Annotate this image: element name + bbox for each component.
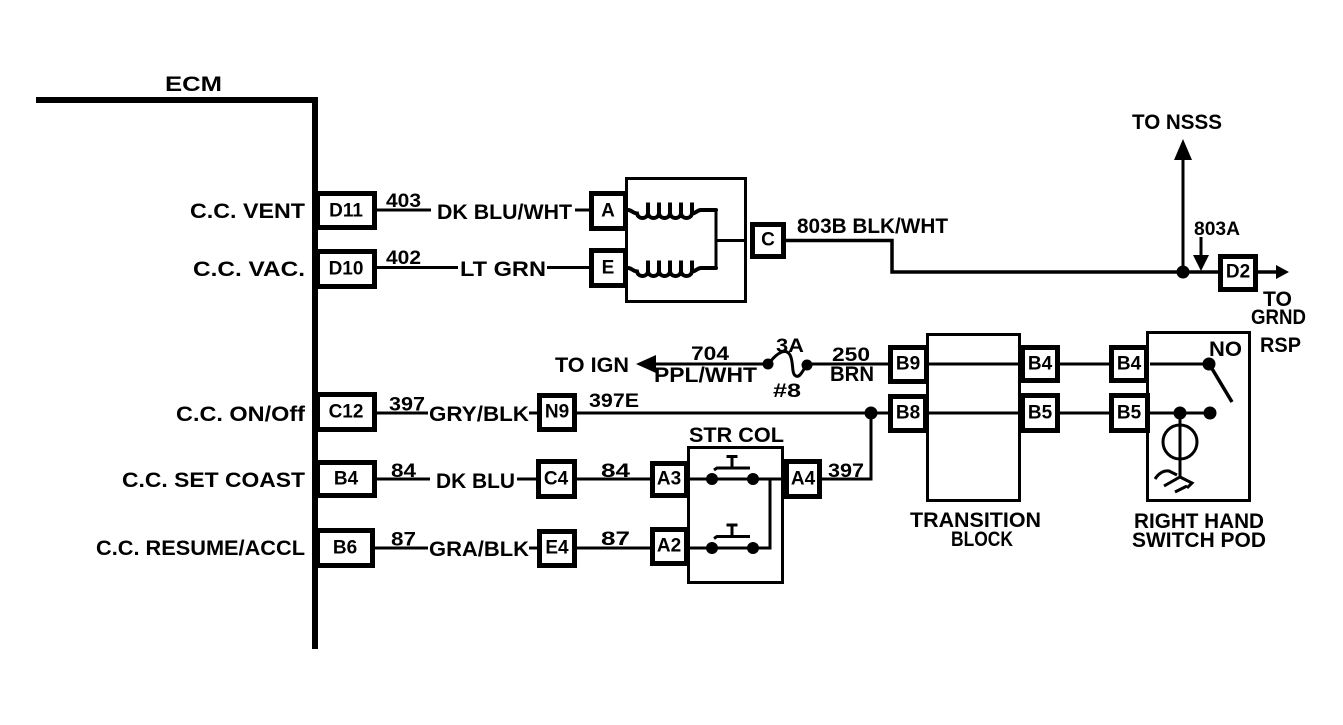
svg-text:ECM: ECM: [165, 73, 222, 96]
wire B4 block to B4 pod: [1060, 363, 1111, 366]
pod B5 wire: [1150, 412, 1210, 415]
svg-text:84: 84: [601, 461, 631, 482]
NO switch wire: [1150, 363, 1209, 366]
svg-text:BRN: BRN: [830, 363, 874, 386]
arrow to grnd rsp: [1258, 270, 1280, 274]
wire B5 block to B5 pod: [1060, 412, 1111, 415]
connector A2: [653, 530, 687, 564]
svg-text:DK BLU: DK BLU: [436, 470, 515, 493]
connector C: [753, 225, 784, 257]
coil join wire: [716, 210, 747, 268]
wire 803B from C to D2: [785, 241, 1218, 273]
svg-text:A3: A3: [657, 469, 681, 490]
svg-text:GRND: GRND: [1251, 306, 1306, 329]
vac solenoid coil L2: [628, 261, 716, 277]
svg-text:B8: B8: [896, 403, 920, 424]
wire 87 from B6: [375, 547, 428, 550]
svg-text:C: C: [761, 230, 775, 251]
svg-text:D2: D2: [1226, 262, 1250, 283]
svg-text:B9: B9: [896, 354, 920, 375]
connector pin B6: [318, 531, 373, 566]
wire B8 to B5 through block: [927, 412, 1022, 415]
svg-text:A4: A4: [791, 469, 816, 490]
wire stub to N9: [529, 412, 539, 415]
svg-text:87: 87: [601, 529, 630, 550]
wire 704: [653, 363, 764, 366]
svg-text:B4: B4: [1028, 354, 1053, 375]
NSSS arrow up: [1174, 139, 1192, 160]
wire stub to E4: [529, 547, 539, 550]
resume/accl switch contacts: [706, 542, 718, 554]
connector B9: [891, 348, 927, 382]
svg-text:DK BLU/WHT: DK BLU/WHT: [437, 201, 572, 224]
svg-text:397: 397: [828, 461, 864, 482]
NO switch contact: [1203, 358, 1216, 371]
connector pin D10: [318, 252, 375, 287]
connector pin D11: [318, 194, 375, 228]
svg-text:84: 84: [391, 461, 417, 482]
svg-text:C.C. VENT: C.C. VENT: [190, 200, 305, 223]
connector B8: [891, 397, 926, 431]
connector A: [592, 194, 626, 229]
wire B9 to B4 through block: [928, 363, 1022, 366]
svg-text:GRY/BLK: GRY/BLK: [429, 403, 529, 426]
svg-text:C.C. VAC.: C.C. VAC.: [193, 258, 305, 281]
svg-text:397E: 397E: [589, 391, 639, 412]
svg-text:BLOCK: BLOCK: [951, 528, 1013, 551]
svg-text:C.C. ON/Off: C.C. ON/Off: [176, 403, 306, 426]
wire 397 from A4 to junction: [820, 413, 871, 479]
svg-text:RSP: RSP: [1260, 334, 1301, 357]
set/coast switch actuator: [714, 457, 750, 471]
connector A4: [787, 462, 820, 497]
svg-text:PPL/WHT: PPL/WHT: [654, 364, 757, 387]
servo solenoid box: [627, 179, 746, 302]
connector pin C12: [318, 395, 375, 430]
wire 397 from C12: [377, 412, 428, 415]
connector B5 (block): [1023, 396, 1058, 431]
NSSS wire: [1182, 158, 1185, 272]
ground lamp circle: [1163, 425, 1197, 459]
svg-text:N9: N9: [545, 402, 569, 423]
803A pointer arrow: [1200, 237, 1203, 257]
fuse F8 3A: [763, 359, 774, 370]
resume/accl switch wire: [689, 547, 753, 550]
svg-text:803B BLK/WHT: 803B BLK/WHT: [797, 215, 948, 238]
wire stub to A: [575, 209, 589, 212]
svg-text:87: 87: [391, 530, 416, 551]
junction node 397: [865, 407, 878, 420]
STR COL block: [689, 448, 783, 583]
wire stub to C4: [517, 478, 538, 481]
svg-text:A: A: [601, 201, 615, 222]
svg-text:TO IGN: TO IGN: [555, 354, 629, 377]
pod node B5-a: [1174, 407, 1187, 420]
svg-text:C12: C12: [329, 402, 364, 423]
IGN arrow left: [636, 355, 656, 373]
svg-text:B5: B5: [1117, 403, 1142, 424]
wire to E: [547, 266, 589, 269]
wire 397E from N9 to B8: [577, 412, 888, 415]
svg-text:403: 403: [386, 191, 421, 212]
set/coast switch wire: [689, 478, 786, 481]
svg-text:E: E: [602, 258, 615, 279]
svg-text:C.C. SET COAST: C.C. SET COAST: [122, 469, 305, 492]
chassis ground G: [1155, 471, 1192, 492]
wire 403 from D11: [377, 209, 431, 212]
svg-text:803A: 803A: [1194, 219, 1240, 240]
svg-text:C4: C4: [544, 469, 569, 490]
wire 250 BRN: [811, 363, 889, 366]
connector E4: [540, 532, 575, 566]
svg-text:C.C. RESUME/ACCL: C.C. RESUME/ACCL: [96, 537, 305, 560]
wire 84 from B4: [377, 478, 430, 481]
transition block: [928, 335, 1020, 501]
svg-text:B6: B6: [333, 538, 357, 559]
ECM vertical bus: [312, 97, 318, 649]
svg-text:TO NSSS: TO NSSS: [1132, 111, 1222, 134]
junction node 803: [1177, 266, 1190, 279]
svg-text:397: 397: [389, 395, 425, 416]
resume/accl switch actuator: [714, 525, 750, 539]
svg-text:B4: B4: [1117, 354, 1142, 375]
svg-text:402: 402: [386, 248, 421, 269]
vent solenoid coil L1: [628, 203, 716, 219]
pod node B5-b: [1204, 407, 1217, 420]
connector B4 (pod): [1112, 348, 1147, 381]
svg-text:#8: #8: [773, 381, 801, 402]
svg-text:D10: D10: [329, 259, 364, 280]
NO switch blade: [1211, 367, 1232, 402]
wire 84 from C4 to A3: [577, 478, 650, 481]
connector N9: [540, 396, 575, 430]
ECM top edge wire: [36, 97, 318, 103]
svg-text:SWITCH POD: SWITCH POD: [1132, 529, 1266, 552]
svg-text:B5: B5: [1028, 403, 1053, 424]
connector B4 (block): [1023, 348, 1058, 381]
connector B5 (pod): [1112, 396, 1148, 431]
svg-text:704: 704: [691, 344, 730, 365]
wire resume to set joint: [753, 479, 770, 548]
wire 402 from D10: [377, 266, 458, 269]
svg-text:3A: 3A: [776, 336, 804, 357]
svg-text:NO: NO: [1209, 338, 1242, 361]
svg-text:B4: B4: [334, 469, 359, 490]
svg-text:LT GRN: LT GRN: [460, 258, 546, 281]
svg-text:A2: A2: [657, 536, 681, 557]
connector E: [592, 251, 626, 286]
set/coast switch contacts: [706, 473, 718, 485]
svg-text:STR COL: STR COL: [689, 424, 784, 447]
connector D2: [1221, 257, 1256, 290]
ground lamp wire: [1179, 413, 1182, 477]
svg-text:E4: E4: [545, 538, 569, 559]
svg-text:D11: D11: [329, 201, 363, 222]
connector pin B4 (ECM): [318, 463, 375, 496]
connector A3: [653, 464, 687, 496]
connector C4: [539, 462, 575, 497]
svg-text:GRA/BLK: GRA/BLK: [429, 538, 529, 561]
wire 87 from E4 to A2: [577, 547, 650, 550]
right hand switch pod box: [1148, 333, 1250, 501]
